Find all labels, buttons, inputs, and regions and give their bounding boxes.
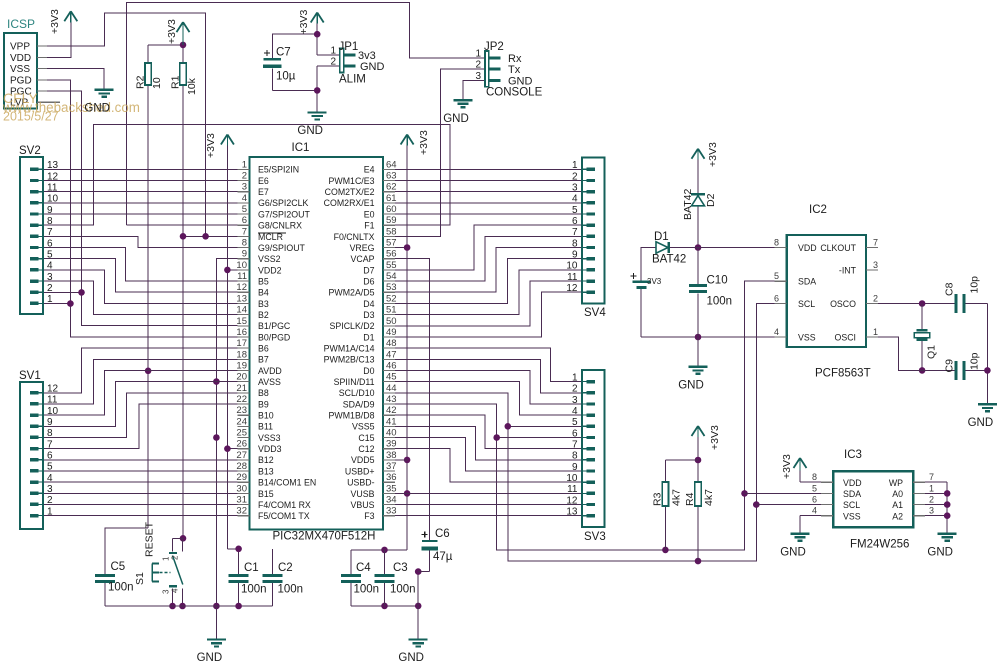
svg-text:22: 22 xyxy=(236,394,247,405)
svg-text:100n: 100n xyxy=(707,296,733,308)
svg-text:G7/SPI2OUT: G7/SPI2OUT xyxy=(258,209,310,219)
svg-text:BAT42: BAT42 xyxy=(652,254,686,266)
svg-text:R1: R1 xyxy=(169,75,181,89)
svg-text:11: 11 xyxy=(47,183,58,194)
svg-text:6: 6 xyxy=(47,451,53,462)
svg-text:R2: R2 xyxy=(134,75,146,89)
svg-text:29: 29 xyxy=(236,472,247,483)
svg-text:OSCO: OSCO xyxy=(830,299,856,309)
svg-text:SCL: SCL xyxy=(798,299,815,309)
svg-text:13: 13 xyxy=(566,507,578,518)
svg-text:2015/5/27: 2015/5/27 xyxy=(3,110,59,124)
svg-text:47µ: 47µ xyxy=(433,551,453,563)
svg-text:35: 35 xyxy=(386,483,397,494)
svg-text:100n: 100n xyxy=(241,584,267,596)
svg-text:9: 9 xyxy=(47,417,53,428)
svg-text:VSS: VSS xyxy=(843,511,861,521)
svg-text:30: 30 xyxy=(236,483,247,494)
svg-text:1: 1 xyxy=(873,327,878,337)
svg-text:IC3: IC3 xyxy=(844,449,862,461)
svg-text:9: 9 xyxy=(47,205,53,216)
svg-text:100n: 100n xyxy=(390,584,416,596)
svg-text:B9: B9 xyxy=(258,399,269,409)
svg-text:C7: C7 xyxy=(276,47,291,59)
svg-text:13: 13 xyxy=(47,160,59,171)
svg-text:3: 3 xyxy=(572,183,578,194)
svg-text:39: 39 xyxy=(386,439,397,450)
svg-text:B7: B7 xyxy=(258,355,269,365)
svg-text:44: 44 xyxy=(386,383,397,394)
svg-text:G8/CNLRX: G8/CNLRX xyxy=(258,221,302,231)
svg-text:PCF8563T: PCF8563T xyxy=(815,368,871,380)
svg-text:2: 2 xyxy=(171,555,180,560)
svg-text:B8: B8 xyxy=(258,388,269,398)
svg-text:9: 9 xyxy=(572,462,578,473)
svg-text:42: 42 xyxy=(386,405,397,416)
svg-text:VDD: VDD xyxy=(798,243,817,253)
svg-text:COM2TX/E2: COM2TX/E2 xyxy=(325,187,375,197)
svg-text:3V3: 3V3 xyxy=(647,277,662,286)
svg-text:8: 8 xyxy=(812,472,817,482)
svg-text:2: 2 xyxy=(475,60,481,71)
svg-text:D7: D7 xyxy=(363,265,374,275)
svg-text:28: 28 xyxy=(236,461,247,472)
svg-text:B0/PGD: B0/PGD xyxy=(258,332,290,342)
svg-text:41: 41 xyxy=(386,416,397,427)
svg-text:15: 15 xyxy=(236,316,247,327)
svg-text:12: 12 xyxy=(47,171,59,182)
svg-text:2: 2 xyxy=(929,495,934,505)
svg-text:FM24W256: FM24W256 xyxy=(850,539,909,551)
svg-text:3: 3 xyxy=(47,272,53,283)
svg-text:C9: C9 xyxy=(943,359,955,373)
svg-text:D1: D1 xyxy=(654,231,669,243)
svg-text:VREG: VREG xyxy=(350,243,375,253)
svg-text:6: 6 xyxy=(47,238,53,249)
svg-text:COM2RX/E1: COM2RX/E1 xyxy=(324,198,375,208)
svg-text:7: 7 xyxy=(242,226,247,237)
svg-text:VDD: VDD xyxy=(10,53,31,64)
svg-text:26: 26 xyxy=(236,439,247,450)
svg-text:3: 3 xyxy=(47,484,53,495)
svg-text:1: 1 xyxy=(929,483,934,493)
svg-text:7: 7 xyxy=(47,439,53,450)
svg-text:3: 3 xyxy=(873,260,878,270)
svg-text:SDA: SDA xyxy=(798,277,816,287)
svg-text:Q1: Q1 xyxy=(926,345,938,359)
svg-text:100n: 100n xyxy=(354,584,380,596)
svg-text:VDD3: VDD3 xyxy=(258,444,282,454)
svg-text:JP2: JP2 xyxy=(484,41,504,53)
svg-text:RESET: RESET xyxy=(144,521,156,557)
svg-text:9: 9 xyxy=(572,250,578,261)
svg-text:4: 4 xyxy=(242,193,247,204)
svg-text:31: 31 xyxy=(236,495,247,506)
svg-text:6: 6 xyxy=(572,428,578,439)
svg-text:F4/COM1 RX: F4/COM1 RX xyxy=(258,500,311,510)
svg-text:GND: GND xyxy=(443,113,469,125)
svg-text:12: 12 xyxy=(236,282,247,293)
svg-text:+3V3: +3V3 xyxy=(418,130,430,155)
svg-text:56: 56 xyxy=(386,249,397,260)
svg-text:SV1: SV1 xyxy=(19,370,41,382)
svg-text:100n: 100n xyxy=(278,584,304,596)
svg-text:27: 27 xyxy=(236,450,247,461)
svg-text:SCL: SCL xyxy=(843,500,860,510)
svg-text:10: 10 xyxy=(151,77,163,89)
svg-text:4: 4 xyxy=(774,327,779,337)
svg-text:18: 18 xyxy=(236,349,247,360)
svg-text:CLKOUT: CLKOUT xyxy=(820,243,856,253)
svg-text:11: 11 xyxy=(567,272,578,283)
svg-text:USBD+: USBD+ xyxy=(345,466,375,476)
svg-text:VSS2: VSS2 xyxy=(258,254,281,264)
svg-text:2: 2 xyxy=(873,294,878,304)
svg-text:+3V3: +3V3 xyxy=(298,10,310,35)
svg-text:8: 8 xyxy=(572,451,578,462)
svg-text:1: 1 xyxy=(330,46,336,57)
svg-text:10: 10 xyxy=(236,260,247,271)
svg-text:VSS: VSS xyxy=(798,333,816,343)
svg-text:D4: D4 xyxy=(363,299,374,309)
svg-text:8: 8 xyxy=(47,428,53,439)
svg-text:55: 55 xyxy=(386,260,397,271)
svg-text:12: 12 xyxy=(47,384,59,395)
svg-text:8: 8 xyxy=(47,216,53,227)
svg-text:E4: E4 xyxy=(364,165,375,175)
svg-text:7: 7 xyxy=(929,472,934,482)
svg-text:4k7: 4k7 xyxy=(671,489,683,506)
svg-text:D3: D3 xyxy=(363,310,374,320)
svg-text:4: 4 xyxy=(572,194,578,205)
svg-text:SV3: SV3 xyxy=(584,531,606,543)
svg-text:D1: D1 xyxy=(363,332,374,342)
svg-text:D2: D2 xyxy=(705,193,717,207)
svg-text:C2: C2 xyxy=(278,562,293,574)
svg-text:58: 58 xyxy=(386,226,397,237)
svg-text:+3V3: +3V3 xyxy=(49,9,61,34)
svg-text:14: 14 xyxy=(236,305,247,316)
svg-text:S1: S1 xyxy=(134,572,146,585)
svg-text:1: 1 xyxy=(242,159,247,170)
svg-text:37: 37 xyxy=(386,461,397,472)
svg-text:16: 16 xyxy=(236,327,247,338)
svg-text:PGD: PGD xyxy=(10,75,32,86)
svg-text:11: 11 xyxy=(237,271,247,282)
svg-text:63: 63 xyxy=(386,171,397,182)
svg-text:B15: B15 xyxy=(258,489,274,499)
svg-text:SV4: SV4 xyxy=(584,307,606,319)
svg-text:11: 11 xyxy=(567,484,578,495)
svg-text:PWM1C/E3: PWM1C/E3 xyxy=(329,176,375,186)
svg-text:4: 4 xyxy=(47,261,53,272)
svg-text:3: 3 xyxy=(162,589,171,594)
svg-text:10p: 10p xyxy=(969,276,981,294)
svg-text:SPIIN/D11: SPIIN/D11 xyxy=(334,377,375,387)
svg-text:4: 4 xyxy=(572,406,578,417)
svg-text:VUSB: VUSB xyxy=(351,489,375,499)
svg-text:G9/SPIOUT: G9/SPIOUT xyxy=(258,243,306,253)
svg-text:AVSS: AVSS xyxy=(258,377,281,387)
svg-text:62: 62 xyxy=(386,182,397,193)
svg-text:47: 47 xyxy=(386,349,397,360)
svg-text:+3V3: +3V3 xyxy=(707,142,719,167)
svg-text:Tx: Tx xyxy=(508,64,521,76)
svg-text:25: 25 xyxy=(236,428,247,439)
svg-text:B13: B13 xyxy=(258,466,274,476)
svg-text:VPP: VPP xyxy=(10,42,30,53)
svg-text:Rx: Rx xyxy=(508,53,522,65)
svg-text:PWM2B/C13: PWM2B/C13 xyxy=(324,355,375,365)
svg-text:C15: C15 xyxy=(358,433,374,443)
svg-text:B5: B5 xyxy=(258,276,269,286)
svg-text:C6: C6 xyxy=(435,528,450,540)
svg-text:5: 5 xyxy=(242,204,247,215)
svg-text:SV2: SV2 xyxy=(19,145,41,157)
svg-text:5: 5 xyxy=(47,462,53,473)
svg-text:9: 9 xyxy=(242,249,247,260)
svg-text:G6/SPI2CLK: G6/SPI2CLK xyxy=(258,198,308,208)
svg-text:-INT: -INT xyxy=(839,265,857,275)
svg-text:VDD5: VDD5 xyxy=(351,455,375,465)
svg-text:2: 2 xyxy=(572,384,578,395)
svg-text:13: 13 xyxy=(236,293,247,304)
svg-text:B14/COM1 EN: B14/COM1 EN xyxy=(258,478,316,488)
svg-text:SPICLK/D2: SPICLK/D2 xyxy=(330,321,375,331)
svg-text:38: 38 xyxy=(386,450,397,461)
svg-text:2: 2 xyxy=(330,57,336,68)
svg-text:PWM2A/D5: PWM2A/D5 xyxy=(329,288,375,298)
svg-text:23: 23 xyxy=(236,405,247,416)
svg-text:64: 64 xyxy=(386,159,397,170)
svg-text:F5/COM1 TX: F5/COM1 TX xyxy=(258,511,310,521)
svg-text:8: 8 xyxy=(242,238,247,249)
svg-text:GND: GND xyxy=(197,652,223,664)
svg-text:61: 61 xyxy=(386,193,397,204)
svg-text:20: 20 xyxy=(236,372,247,383)
svg-text:3: 3 xyxy=(929,506,934,516)
svg-text:B6: B6 xyxy=(258,344,269,354)
svg-text:10: 10 xyxy=(47,406,59,417)
svg-text:4k7: 4k7 xyxy=(703,489,715,506)
svg-text:2: 2 xyxy=(47,283,53,294)
svg-text:10µ: 10µ xyxy=(276,71,296,83)
svg-text:BAT42: BAT42 xyxy=(682,189,694,220)
svg-text:OSCI: OSCI xyxy=(834,333,856,343)
svg-text:36: 36 xyxy=(386,472,397,483)
svg-text:VSS: VSS xyxy=(10,64,30,75)
svg-text:+3V3: +3V3 xyxy=(166,19,178,44)
svg-text:10k: 10k xyxy=(186,77,198,95)
svg-text:D0: D0 xyxy=(363,366,374,376)
svg-text:24: 24 xyxy=(236,416,247,427)
svg-text:6: 6 xyxy=(242,215,247,226)
svg-text:D6: D6 xyxy=(363,276,374,286)
svg-text:6: 6 xyxy=(572,216,578,227)
svg-text:CONSOLE: CONSOLE xyxy=(486,87,543,99)
svg-text:10p: 10p xyxy=(969,352,981,370)
svg-text:33: 33 xyxy=(386,506,397,517)
svg-text:E5/SPI2IN: E5/SPI2IN xyxy=(258,165,299,175)
svg-text:19: 19 xyxy=(236,361,247,372)
svg-text:F0/CNLTX: F0/CNLTX xyxy=(334,232,375,242)
svg-text:C5: C5 xyxy=(111,561,126,573)
svg-text:C1: C1 xyxy=(244,562,259,574)
svg-text:1: 1 xyxy=(47,294,53,305)
svg-text:B11: B11 xyxy=(258,422,273,432)
svg-text:7: 7 xyxy=(873,238,878,248)
svg-text:PIC32MX470F512H: PIC32MX470F512H xyxy=(273,531,376,543)
svg-text:SDA/D9: SDA/D9 xyxy=(343,399,375,409)
svg-text:AVDD: AVDD xyxy=(258,366,282,376)
svg-text:VCAP: VCAP xyxy=(351,254,375,264)
svg-text:A2: A2 xyxy=(892,511,903,521)
svg-text:E0: E0 xyxy=(364,209,375,219)
svg-text:C8: C8 xyxy=(943,282,955,296)
svg-text:SCL/D10: SCL/D10 xyxy=(339,388,375,398)
svg-text:6: 6 xyxy=(774,294,779,304)
svg-text:10: 10 xyxy=(566,473,578,484)
svg-text:IC2: IC2 xyxy=(809,204,827,216)
svg-text:VDD2: VDD2 xyxy=(258,265,282,275)
svg-text:59: 59 xyxy=(386,215,397,226)
svg-text:B2: B2 xyxy=(258,310,269,320)
svg-text:8: 8 xyxy=(774,238,779,248)
svg-text:GND: GND xyxy=(398,652,424,664)
svg-text:11: 11 xyxy=(47,395,58,406)
svg-text:3v3: 3v3 xyxy=(358,50,376,62)
svg-text:GND: GND xyxy=(678,379,704,391)
svg-text:5: 5 xyxy=(47,250,53,261)
svg-text:3: 3 xyxy=(572,395,578,406)
svg-text:5: 5 xyxy=(572,417,578,428)
svg-text:VSS3: VSS3 xyxy=(258,433,281,443)
svg-text:6: 6 xyxy=(812,495,817,505)
svg-text:F1: F1 xyxy=(364,221,374,231)
svg-text:12: 12 xyxy=(566,283,578,294)
svg-text:C10: C10 xyxy=(707,275,728,287)
svg-text:GND: GND xyxy=(360,61,385,73)
svg-text:2: 2 xyxy=(242,171,247,182)
svg-text:VDD: VDD xyxy=(843,478,862,488)
svg-text:32: 32 xyxy=(236,506,247,517)
svg-text:GND: GND xyxy=(927,546,953,558)
svg-text:B10: B10 xyxy=(258,411,274,421)
svg-text:4: 4 xyxy=(812,506,817,516)
svg-text:B4: B4 xyxy=(258,288,269,298)
svg-text:50: 50 xyxy=(386,316,397,327)
svg-text:WP: WP xyxy=(889,478,903,488)
svg-text:7: 7 xyxy=(572,440,578,451)
svg-text:GND: GND xyxy=(780,546,806,558)
svg-text:40: 40 xyxy=(386,428,397,439)
svg-text:100n: 100n xyxy=(108,582,134,594)
svg-text:C12: C12 xyxy=(358,444,374,454)
svg-text:ALIM: ALIM xyxy=(339,74,366,86)
svg-text:A0: A0 xyxy=(892,489,903,499)
svg-text:IC1: IC1 xyxy=(292,142,310,154)
svg-text:45: 45 xyxy=(386,372,397,383)
svg-text:49: 49 xyxy=(386,327,397,338)
svg-text:VSS5: VSS5 xyxy=(352,422,375,432)
svg-text:5: 5 xyxy=(774,271,779,281)
svg-text:1: 1 xyxy=(475,48,481,59)
svg-text:C4: C4 xyxy=(356,562,371,574)
svg-text:R3: R3 xyxy=(652,492,664,506)
svg-text:5: 5 xyxy=(812,483,817,493)
svg-text:5: 5 xyxy=(572,205,578,216)
svg-text:10: 10 xyxy=(47,194,59,205)
svg-text:PWM1B/D8: PWM1B/D8 xyxy=(329,411,375,421)
svg-text:E6: E6 xyxy=(258,176,269,186)
svg-text:4: 4 xyxy=(171,588,180,593)
svg-text:8: 8 xyxy=(572,238,578,249)
svg-text:SDA: SDA xyxy=(843,489,861,499)
svg-text:F3: F3 xyxy=(364,511,374,521)
svg-text:51: 51 xyxy=(386,305,397,316)
svg-text:2: 2 xyxy=(572,171,578,182)
svg-text:E7: E7 xyxy=(258,187,269,197)
svg-text:46: 46 xyxy=(386,361,397,372)
svg-text:A1: A1 xyxy=(892,500,903,510)
svg-text:GND: GND xyxy=(297,125,323,137)
svg-text:GND: GND xyxy=(968,417,994,429)
svg-text:53: 53 xyxy=(386,282,397,293)
svg-text:2: 2 xyxy=(47,495,53,506)
svg-text:ICSP: ICSP xyxy=(7,17,35,31)
svg-text:C3: C3 xyxy=(393,562,408,574)
svg-text:B3: B3 xyxy=(258,299,269,309)
svg-text:JP1: JP1 xyxy=(339,41,359,53)
svg-text:+3V3: +3V3 xyxy=(205,133,217,158)
svg-text:1: 1 xyxy=(572,160,578,171)
svg-text:7: 7 xyxy=(572,227,578,238)
svg-text:34: 34 xyxy=(386,495,397,506)
svg-text:+3V3: +3V3 xyxy=(709,425,721,450)
svg-text:4: 4 xyxy=(47,473,53,484)
svg-text:12: 12 xyxy=(566,495,578,506)
svg-text:43: 43 xyxy=(386,394,397,405)
svg-text:GND: GND xyxy=(84,102,110,114)
svg-text:3: 3 xyxy=(475,71,481,82)
svg-text:1: 1 xyxy=(47,506,53,517)
svg-text:VBUS: VBUS xyxy=(351,500,375,510)
svg-text:R4: R4 xyxy=(684,492,696,506)
svg-text:1: 1 xyxy=(162,556,171,561)
svg-text:57: 57 xyxy=(386,238,397,249)
svg-text:GND: GND xyxy=(508,75,533,87)
svg-text:54: 54 xyxy=(386,271,397,282)
svg-text:+3V3: +3V3 xyxy=(781,454,793,479)
svg-text:60: 60 xyxy=(386,204,397,215)
svg-text:10: 10 xyxy=(566,261,578,272)
svg-text:1: 1 xyxy=(572,372,578,383)
svg-text:52: 52 xyxy=(386,293,397,304)
svg-text:21: 21 xyxy=(236,383,247,394)
svg-text:PWM1A/C14: PWM1A/C14 xyxy=(324,344,375,354)
svg-text:USBD-: USBD- xyxy=(347,478,374,488)
svg-text:48: 48 xyxy=(386,338,397,349)
svg-text:B1/PGC: B1/PGC xyxy=(258,321,291,331)
svg-text:7: 7 xyxy=(47,227,53,238)
svg-text:B12: B12 xyxy=(258,455,274,465)
svg-text:3: 3 xyxy=(242,182,247,193)
svg-text:17: 17 xyxy=(236,338,247,349)
